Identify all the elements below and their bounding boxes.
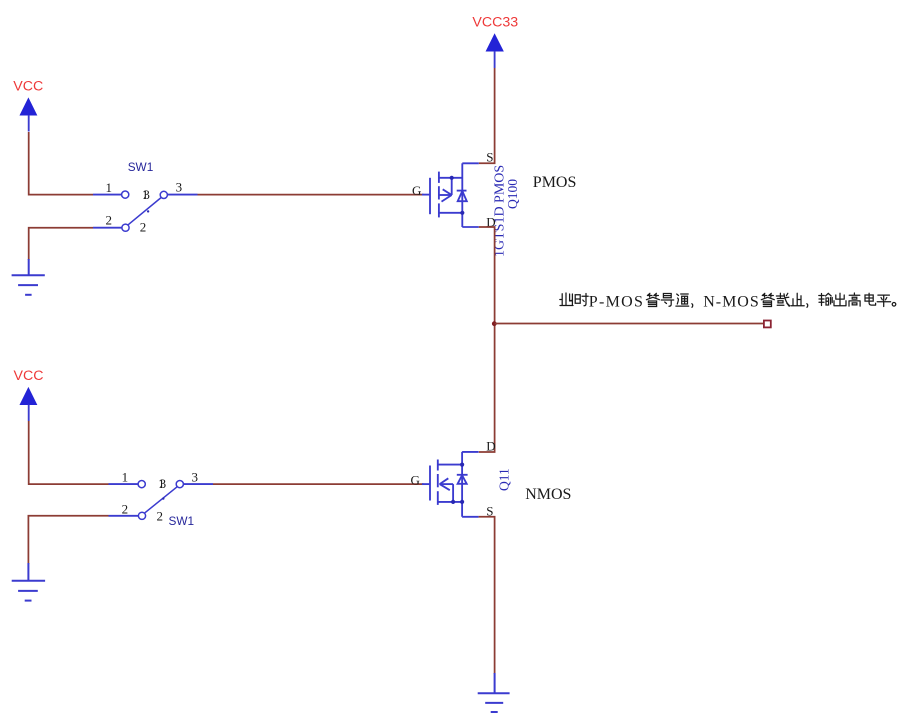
- svg-text:G: G: [411, 472, 420, 487]
- wire PMOS drain down to NMOS drain: [479, 227, 495, 452]
- svg-text:VCC: VCC: [14, 368, 44, 384]
- fullwidth comma: [806, 304, 809, 308]
- switch SW1 (lower): [109, 470, 214, 529]
- source-side bottom leg: [439, 212, 462, 214]
- power port VCC (lower left): [14, 368, 44, 421]
- power stem: [494, 51, 496, 68]
- pin 3 circle: [160, 191, 167, 198]
- char 高: [849, 293, 860, 306]
- svg-text:2: 2: [106, 213, 113, 228]
- annotation text: 此时P-MOS管导通，N-MOS管截止，输出高电平。 (drawn strokes): [560, 293, 896, 307]
- arrow barbs (pointing left, NMOS): [440, 478, 449, 484]
- fullwidth period: [892, 303, 896, 307]
- svg-text:P-MOS: P-MOS: [589, 294, 644, 311]
- junction dot (NMOS top leg): [460, 463, 464, 467]
- transistor Q100 PMOS: [422, 163, 479, 227]
- body diode: [457, 474, 468, 476]
- ground symbol (upper left): [12, 259, 45, 295]
- wire NMOS source to ground: [479, 517, 495, 674]
- node output junction: [492, 321, 497, 326]
- pin 1 lead: [109, 483, 139, 485]
- lever: [128, 198, 161, 226]
- svg-text:N-MOS: N-MOS: [703, 294, 760, 311]
- svg-text:1: 1: [122, 470, 129, 485]
- channel dashes: [437, 460, 439, 471]
- D pin stub: [462, 226, 479, 228]
- char 管: [761, 293, 774, 306]
- gate lead: [422, 194, 430, 196]
- svg-text:VCC: VCC: [13, 79, 43, 95]
- channel dashes: [438, 172, 440, 183]
- char 此: [560, 293, 573, 306]
- svg-text:D: D: [486, 439, 495, 454]
- svg-text:1: 1: [106, 180, 113, 195]
- drain-side top leg: [438, 464, 462, 466]
- svg-text:PMOS: PMOS: [533, 174, 577, 191]
- pin 2 circle: [122, 224, 129, 231]
- terminal open square: [764, 321, 771, 328]
- power arrow: [486, 34, 503, 51]
- switch SW1 (upper): [93, 160, 198, 234]
- S pin stub: [462, 162, 479, 164]
- wire SW1 pin3 to PMOS gate: [198, 194, 424, 196]
- svg-text:3: 3: [143, 187, 150, 202]
- svg-text:VCC33: VCC33: [472, 14, 518, 30]
- transistor Q11 NMOS: [422, 452, 479, 517]
- source-side bottom leg: [438, 501, 462, 503]
- body tie vertical: [451, 178, 453, 195]
- char 时: [575, 294, 588, 306]
- pin 1 circle: [122, 191, 129, 198]
- wire ground to SW1 pin2: [29, 228, 93, 260]
- wire VCC33 to PMOS source: [479, 68, 495, 163]
- pin 3 lead: [183, 483, 213, 485]
- junction dot (PMOS source leg): [460, 211, 464, 215]
- gate bar: [429, 466, 431, 501]
- svg-text:SW1: SW1: [128, 160, 154, 174]
- power stem: [28, 115, 30, 131]
- gate bar: [429, 178, 431, 214]
- pin 2 lead: [109, 515, 139, 517]
- svg-text:Q11: Q11: [497, 468, 512, 491]
- junction dot (NMOS bottom leg): [460, 500, 464, 504]
- gate lead: [422, 483, 430, 485]
- pin 2 circle: [138, 512, 145, 519]
- char 管: [646, 293, 659, 306]
- power stem: [28, 405, 30, 421]
- svg-text:3: 3: [176, 180, 183, 195]
- char 导: [661, 294, 674, 307]
- arrow barbs (pointing right, PMOS): [443, 189, 452, 195]
- pin 3 circle: [176, 481, 183, 488]
- power arrow: [20, 388, 37, 405]
- pin 1 circle: [138, 481, 145, 488]
- junction dot (PMOS body to drain leg): [450, 176, 454, 180]
- body middle leg: [440, 483, 454, 485]
- svg-text:3: 3: [192, 470, 199, 485]
- char 输: [819, 293, 832, 305]
- pin 1 lead: [93, 194, 122, 196]
- lever tick: [162, 497, 164, 499]
- D pin stub: [462, 451, 479, 453]
- svg-text:2: 2: [122, 502, 129, 517]
- body tie vertical: [452, 484, 454, 502]
- wire VCC to SW1 pin1: [29, 132, 93, 195]
- power port VCC33 (top): [472, 14, 518, 68]
- drain-side top leg: [439, 177, 462, 179]
- wire ground to SW1 pin2 (lower): [28, 516, 108, 564]
- ground symbol (bottom): [478, 673, 510, 712]
- pin 3 lead: [168, 194, 198, 196]
- wire output node to terminal: [495, 323, 766, 325]
- lever: [144, 487, 177, 514]
- svg-text:G: G: [412, 183, 421, 198]
- svg-text:2: 2: [157, 509, 164, 524]
- wire VCC to SW1 pin1 (lower): [29, 421, 109, 484]
- char 止: [791, 293, 804, 305]
- char 电: [865, 293, 876, 305]
- char 截: [776, 293, 789, 306]
- svg-text:SW1: SW1: [169, 514, 195, 528]
- svg-text:3: 3: [160, 476, 167, 491]
- char 平: [877, 295, 890, 306]
- power arrow: [20, 98, 37, 115]
- ground symbol (lower left): [12, 563, 45, 601]
- body middle leg: [439, 194, 452, 196]
- right vertical S to D: [461, 163, 463, 227]
- svg-text:NMOS: NMOS: [525, 486, 571, 503]
- pin 2 lead: [93, 227, 122, 229]
- char 出: [834, 293, 846, 305]
- svg-text:Q100: Q100: [505, 179, 520, 209]
- S pin stub: [462, 516, 479, 518]
- lever tick: [147, 210, 149, 212]
- svg-text:S: S: [486, 150, 493, 165]
- wire SW1 pin3 to NMOS gate: [213, 483, 424, 485]
- body diode: [457, 190, 467, 192]
- junction dot (NMOS body tie): [451, 500, 455, 504]
- char 通: [676, 294, 689, 306]
- power port VCC (upper left): [13, 79, 43, 132]
- right vertical D to S: [461, 452, 463, 517]
- svg-text:2: 2: [140, 220, 147, 235]
- fullwidth comma: [691, 304, 694, 308]
